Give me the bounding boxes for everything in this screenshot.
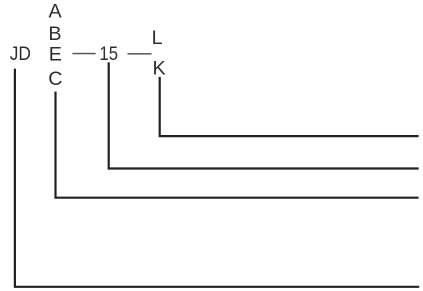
svg-text:C: C [48,68,62,90]
dash between 15 and L/K [128,53,152,55]
svg-text:15: 15 [99,43,118,65]
leader line from 15 [109,62,419,168]
svg-text:K: K [153,57,166,79]
svg-text:L: L [152,27,163,49]
svg-text:A: A [49,1,63,23]
dash between E and 15 [72,53,95,55]
svg-text:JD: JD [10,43,31,65]
leader line from C [56,92,419,198]
svg-text:E: E [49,44,62,66]
leader line from JD [15,69,419,287]
leader line from K [160,77,419,136]
svg-text:B: B [48,23,61,45]
